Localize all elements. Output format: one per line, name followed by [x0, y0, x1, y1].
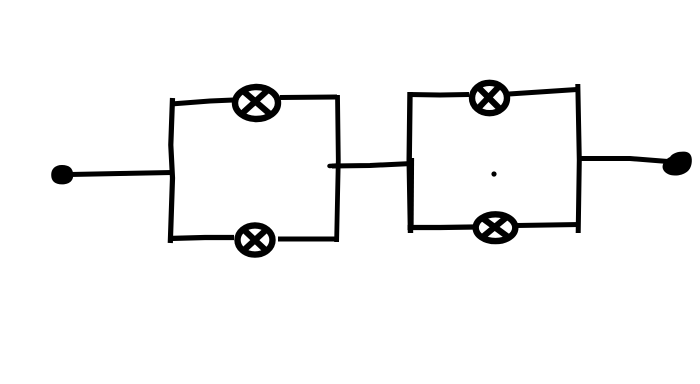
wire: block 2 bottom branch, right segment	[517, 225, 580, 226]
lamp L4 (bottom lamp of right block)	[476, 214, 516, 241]
wire: right vertical of block 1 (node C)	[337, 95, 339, 242]
lamp L2 (bottom lamp of left block)	[238, 225, 273, 254]
junction nub at node C	[330, 163, 339, 168]
wire: left vertical of block 2 (node D)	[409, 92, 410, 233]
wire from node C to node D (between blocks)	[332, 164, 412, 167]
wire: block 1 top branch, right segment	[280, 95, 337, 101]
terminal T2 (right output terminal)	[663, 152, 692, 176]
wire: left vertical of block 1 (node B)	[170, 98, 172, 243]
wire: block 2 top branch, left segment	[409, 92, 469, 98]
wire: block 1 bottom branch, right segment	[278, 237, 337, 242]
wire: block 2 top branch, right segment	[509, 90, 577, 95]
wire from node E to terminal T2	[580, 159, 668, 162]
wire: block 2 bottom branch, left segment	[408, 224, 475, 230]
wire: right vertical of block 2 (node E)	[578, 84, 580, 233]
wire: block 1 top branch, left segment	[171, 100, 234, 104]
wire: block 1 bottom branch, left segment	[169, 238, 235, 239]
stray dot inside block 2	[491, 171, 496, 176]
doubled stroke on node D vertical	[411, 158, 414, 230]
wire from T1 to node B (left parallel block input)	[70, 173, 172, 175]
lamp L3 (top lamp of right block)	[472, 83, 507, 113]
terminal T1 (left input terminal)	[51, 165, 73, 184]
lamp L1 (top lamp of left block)	[235, 87, 278, 119]
